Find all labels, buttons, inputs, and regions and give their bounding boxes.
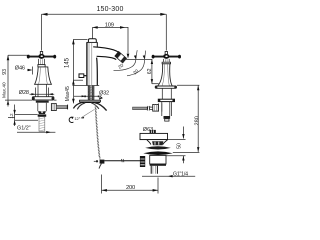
svg-text:12°: 12° [74, 116, 80, 121]
dimension 50 right [166, 127, 186, 164]
svg-text:Ø28: Ø28 [19, 90, 29, 96]
left supply hose under mixer [73, 103, 85, 110]
right valve cone [158, 64, 173, 86]
dimension 62 right [147, 59, 159, 83]
left supply pipe [56, 105, 67, 110]
drain tailpiece G1 1/4 [151, 166, 157, 174]
dimension 93 left [2, 55, 30, 105]
label D63 [143, 127, 153, 133]
left valve stem / extension line [41, 14, 43, 50]
rod clamp block [94, 160, 105, 164]
drain bell [147, 140, 168, 145]
dimension 145 center [65, 39, 88, 103]
dimension D28 left [19, 90, 54, 96]
left valve side outlet nut [51, 104, 56, 111]
spout pivot reference line [126, 58, 152, 60]
dimension Max45 center [65, 80, 75, 101]
left valve locknut [38, 114, 47, 116]
svg-text:G1/2": G1/2" [17, 126, 31, 132]
svg-text:145: 145 [65, 57, 71, 68]
right valve pedestal column [162, 88, 171, 99]
right valve bonnet ring [162, 62, 171, 64]
right valve deck flange [155, 86, 176, 88]
right supply pipe with break [133, 106, 153, 111]
swivel arc inner with arrow [114, 50, 138, 70]
svg-text:50: 50 [176, 143, 182, 149]
swivel arc outer with arrow [127, 51, 146, 76]
mixer shoulder [87, 41, 98, 43]
counter line left [5, 99, 57, 101]
right valve back-arm nub [165, 51, 168, 54]
drain seal disc upper [145, 146, 171, 149]
left valve threaded shank G1/2 [39, 117, 45, 132]
svg-text:93: 93 [2, 69, 8, 75]
mixer base plate [80, 100, 101, 102]
drain plug knob [150, 130, 156, 136]
pop-up wavy rod vertical [95, 104, 102, 169]
swivel 12 deg symbol [69, 109, 94, 122]
mixer pop-up knob [79, 74, 86, 78]
mixer top cap [88, 39, 96, 43]
label G1"1/4 [142, 171, 195, 177]
dimension 150-300 top [42, 6, 167, 16]
left valve under-counter body [38, 103, 47, 112]
right valve side inlet nut [153, 105, 159, 112]
drain gland nut [140, 156, 145, 167]
right valve under-counter body [162, 102, 172, 116]
mixer spout [93, 47, 118, 60]
mixer threaded tails [88, 86, 94, 101]
label D32 [99, 90, 109, 99]
dimension 109 [93, 22, 130, 58]
right valve bottom cap [164, 116, 171, 121]
right valve stem / extension line [165, 14, 167, 50]
svg-text:Max45: Max45 [65, 86, 71, 101]
drain seal disc lower [143, 151, 172, 155]
dimension 12 left [8, 105, 38, 127]
label G1/2" [17, 126, 55, 134]
left valve cross handle [27, 54, 56, 59]
left valve bonnet ring [38, 65, 45, 67]
mixer step line [73, 85, 100, 87]
left valve base flange [32, 97, 54, 100]
right supply hose / pop-up hook under mixer [91, 103, 106, 111]
right valve neck [163, 59, 169, 62]
horizontal pull rod to drain [104, 159, 140, 162]
svg-text:280: 280 [194, 116, 200, 125]
right valve counter flange [158, 99, 174, 101]
svg-text:Ø32: Ø32 [99, 90, 109, 96]
drain flange slab [140, 133, 168, 139]
mixer body column [87, 42, 97, 85]
left valve under-counter dark collar [36, 101, 49, 103]
dimension 280 far right [173, 85, 201, 152]
drain body [150, 155, 166, 165]
right valve cross handle [152, 54, 181, 59]
dimension 200 bottom [102, 175, 159, 194]
label D46 [15, 66, 33, 75]
svg-text:150-300: 150-300 [96, 6, 123, 13]
spout aerator tip hatched [115, 51, 127, 63]
left valve back-arm nub [40, 51, 43, 54]
left valve cone [35, 67, 52, 84]
svg-text:Max.40: Max.40 [2, 82, 8, 98]
Max45 upper ext line [73, 79, 83, 81]
left valve collet [38, 111, 46, 114]
left valve neck [39, 59, 45, 65]
svg-text:Ø46: Ø46 [15, 66, 25, 72]
left valve shank below cone [38, 84, 46, 96]
mixer ledge line with leader arrow [74, 95, 100, 97]
dimension Max.40 left [2, 82, 8, 107]
